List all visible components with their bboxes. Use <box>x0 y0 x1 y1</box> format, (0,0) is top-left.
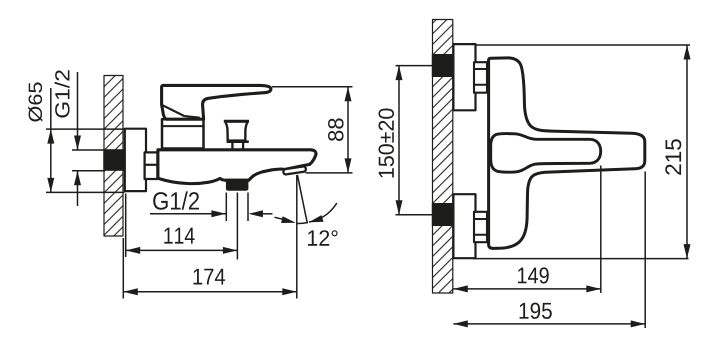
dim Ø65 arrow up <box>47 129 54 144</box>
dim 215 line <box>686 45 688 259</box>
label 195 <box>520 303 552 319</box>
12° leader arrow onto vertical <box>281 216 296 223</box>
label Ø65 <box>28 82 42 121</box>
outlet extension right <box>247 193 249 222</box>
dim G1/2 arrow down <box>74 136 81 151</box>
label 174 <box>194 269 226 285</box>
mixer body (side view) with spout <box>158 150 316 184</box>
wall section (side view, hatched) <box>104 76 123 237</box>
label 149 <box>518 267 549 283</box>
cartridge base under handle <box>162 119 204 148</box>
dim Ø65 line <box>50 88 52 192</box>
dim 88 line <box>347 87 349 173</box>
dim 174 arrow right <box>282 288 297 295</box>
dim Ø65 arrow down <box>47 178 54 193</box>
label 215 <box>665 139 681 175</box>
dim 114 arrow left <box>126 247 141 254</box>
label 12° <box>308 230 338 245</box>
label 88 <box>328 118 344 141</box>
dim 88 arrow down <box>345 158 352 173</box>
dim G1/2 outlet tail line <box>262 213 273 215</box>
diverter knob (side view) <box>225 122 248 141</box>
dim 149 extension right <box>600 166 602 294</box>
escutcheon cover plate (side view, Ø65) <box>125 129 146 191</box>
dim 174 extension right / 12° reference vertical <box>296 175 298 299</box>
12° slanted water line <box>297 175 307 224</box>
dim G1/2 line below <box>77 171 79 206</box>
dim Ø65 extension top <box>46 128 125 130</box>
dim 88 extension top <box>272 86 353 88</box>
dim 215 arrow down <box>684 244 691 259</box>
upper S-union band lines <box>474 69 487 85</box>
dim 150±20 arrow up <box>396 66 403 81</box>
wall section (front view, hatched) <box>433 20 453 294</box>
upper S-union (front view) <box>474 62 487 92</box>
lower wall union thread (black) <box>432 203 453 226</box>
wall union thread (black, G1/2) <box>103 149 124 171</box>
lower S-union band lines <box>474 219 487 235</box>
dim 215 arrow up <box>684 45 691 60</box>
dim 174 extension left <box>122 238 124 299</box>
S-union middle line <box>145 164 158 166</box>
12° leader dash left <box>275 217 285 219</box>
diverter stem right <box>242 143 244 149</box>
dim 88 arrow up <box>345 87 352 102</box>
dim G1/2 outlet arrow right <box>211 210 226 217</box>
lever handle (side view) <box>162 85 271 119</box>
dim 195 arrow left <box>453 320 468 327</box>
dim 174 arrow left <box>123 288 138 295</box>
S-union connector (side view) <box>145 152 158 179</box>
diverter knob top edge <box>224 120 249 123</box>
label 114 <box>164 228 194 244</box>
dim 149 line <box>453 288 601 290</box>
outlet extension left <box>225 193 227 222</box>
dim 215 extension bottom <box>473 258 689 260</box>
diverter knob flange <box>227 140 249 143</box>
12° arc between lines <box>296 223 308 224</box>
dim 195 line <box>453 323 645 325</box>
aerator / spout outlet (tilted 12°) <box>283 166 306 175</box>
dim G1/2 arrow up <box>74 171 81 186</box>
dim 149 arrow right <box>586 285 601 292</box>
mixer body (front view silhouette) <box>489 58 645 249</box>
label G1/2 vertical <box>55 70 70 117</box>
dim 150±20 arrow down <box>396 200 403 215</box>
dim 215 extension top <box>476 44 690 46</box>
upper escutcheon (front view) <box>453 44 475 110</box>
dim 195 arrow right <box>631 320 646 327</box>
dim G1/2 outlet leader line left <box>150 213 226 215</box>
lower escutcheon (front view) <box>453 194 475 258</box>
12° leader curved tail <box>309 203 337 222</box>
dim 195 extension right <box>644 172 646 329</box>
upper wall union thread (black) <box>432 54 453 77</box>
cartridge base ring line <box>162 125 204 127</box>
diverter stem left <box>231 143 233 149</box>
label 150±20 <box>379 109 395 178</box>
dim 150±20 extension bottom <box>396 214 433 216</box>
dim G1/2 extension bottom <box>72 170 104 172</box>
handle underside edge line <box>162 105 200 118</box>
dim G1/2 outlet arrow left <box>248 210 263 217</box>
12° leader arrow onto slanted line <box>309 215 324 222</box>
dim 114 extension left <box>125 194 127 258</box>
dim 114 line <box>126 249 238 251</box>
shower hose outlet (black, G1/2) <box>226 179 249 191</box>
dim 150±20 line <box>398 66 400 215</box>
dim 174 line <box>123 291 296 293</box>
dim 114 arrow right <box>223 247 238 254</box>
lever handle front contour (knob + grip bar) <box>491 134 601 173</box>
dim G1/2 extension top <box>72 149 104 151</box>
dim 150±20 extension top <box>396 65 433 67</box>
lower S-union (front view) <box>474 212 487 242</box>
label G1/2 outlet <box>153 191 199 209</box>
dim 149 arrow left <box>453 285 468 292</box>
outlet extension center <box>236 193 238 260</box>
dim 88 extension bottom <box>306 172 353 174</box>
dim G1/2 line above <box>77 72 79 150</box>
dim Ø65 extension bottom <box>46 191 125 193</box>
